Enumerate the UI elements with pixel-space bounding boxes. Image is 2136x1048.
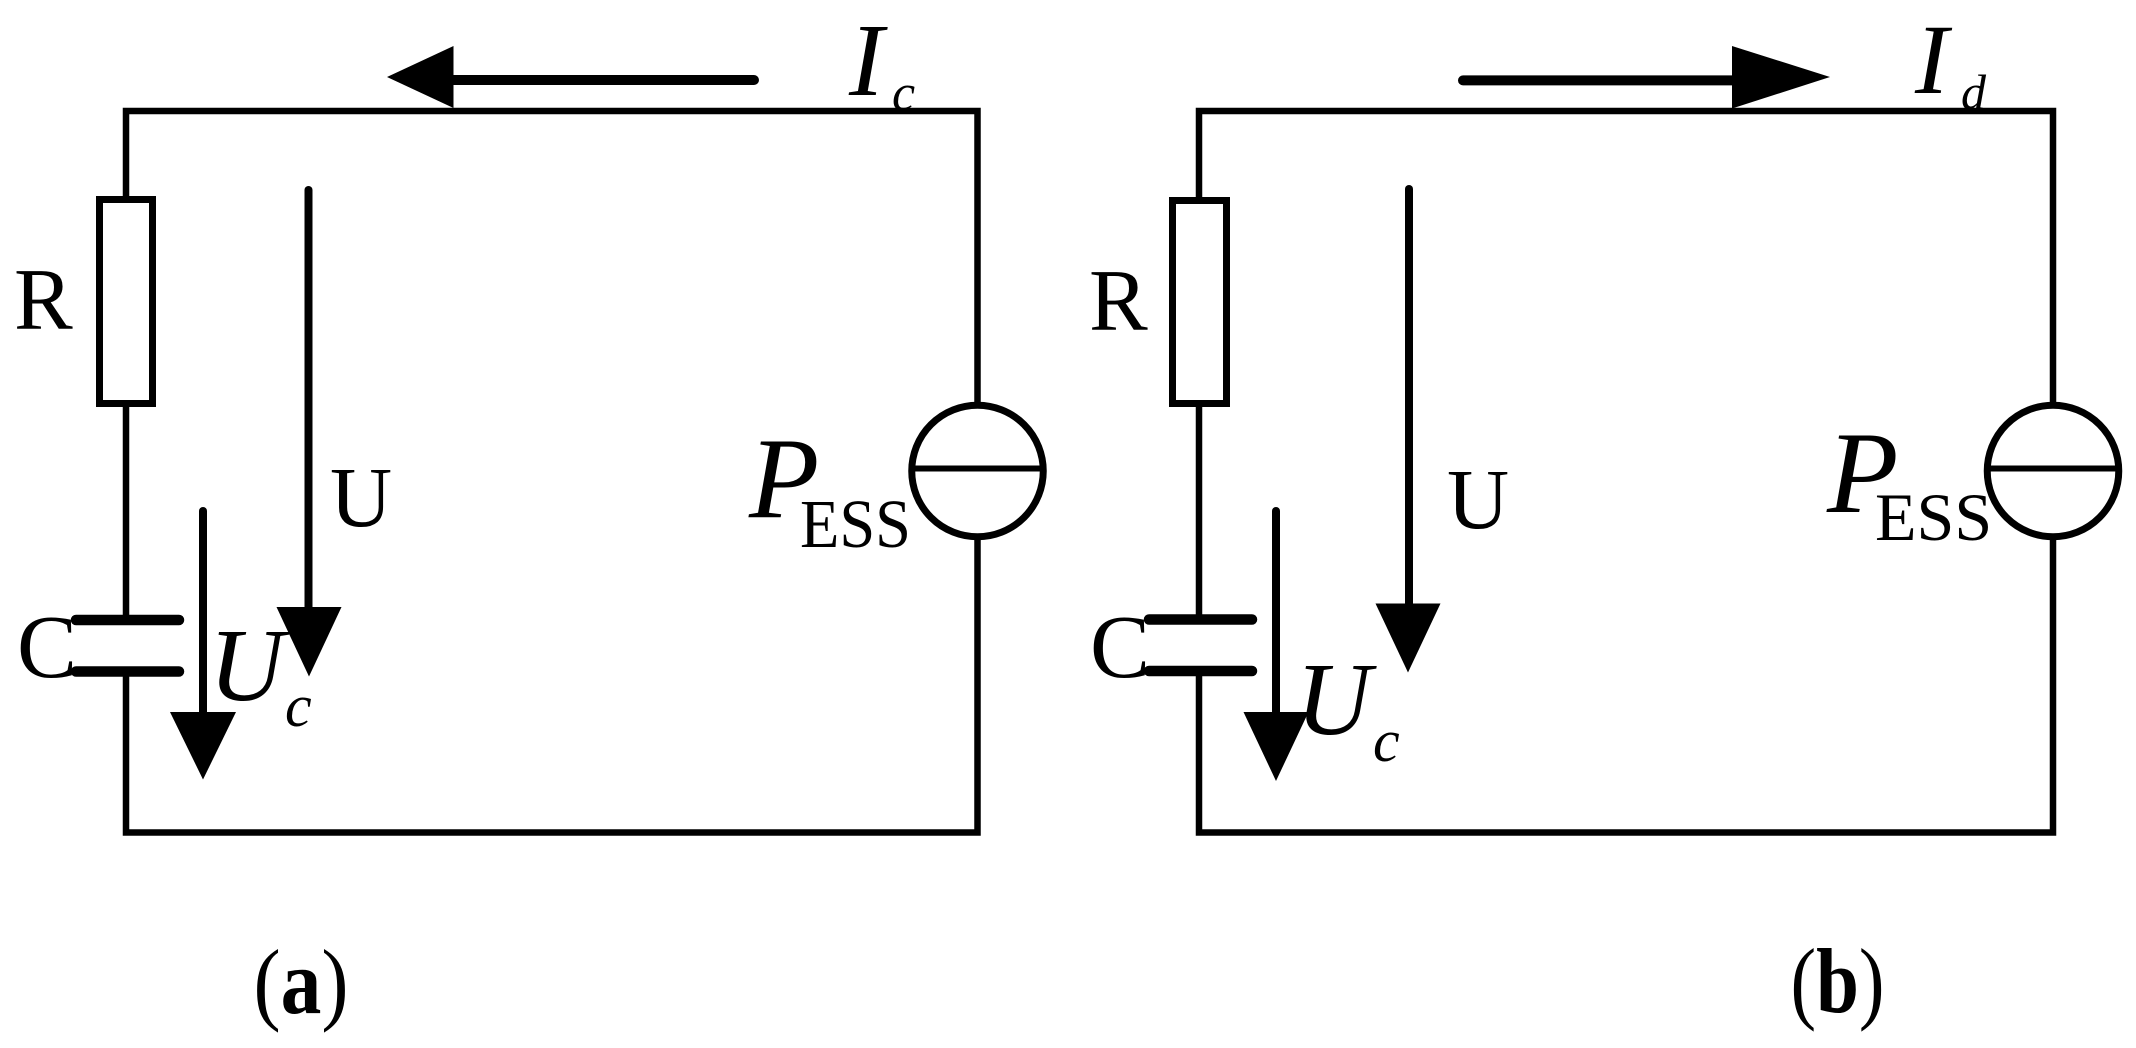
capacitor C (b) bottom plate [1149,666,1252,677]
capacitor C (b) top plate [1149,614,1252,625]
svg-text:U: U [330,449,392,545]
svg-text:ESS: ESS [800,486,911,562]
voltage arrow U (b) head [1376,604,1441,673]
svg-text:(b): (b) [1791,930,1885,1032]
power source P_ESS (a) circle [912,405,1044,537]
resistor R (a) body [100,200,153,404]
wire (b) lower loop [1199,537,2053,833]
wire (a) lower loop: capacitor bottom plate down, across bottom, up to source bottom [126,537,978,833]
power source P_ESS (a) chord [912,466,1044,472]
current arrow Id head [1732,46,1830,109]
svg-text:c: c [285,673,312,739]
svg-text:c: c [1373,708,1400,774]
wire (b) upper loop [1199,111,2053,622]
voltage arrow U (b) shaft [1405,189,1413,626]
current arrow Id shaft [1463,75,1740,85]
power source P_ESS (b) circle [1987,405,2119,537]
svg-text:R: R [1089,253,1148,350]
voltage arrow U (a) shaft [305,190,313,630]
wire (a) upper loop: capacitor top plate up, across top, down to source top [126,111,978,622]
svg-text:U: U [1296,642,1377,757]
current arrow Ic shaft [452,75,754,85]
svg-text:(a): (a) [254,931,349,1033]
capacitor C (a) top plate [76,615,179,626]
svg-text:I: I [848,3,888,118]
svg-text:C: C [1090,598,1150,697]
svg-text:d: d [1961,64,1987,120]
svg-text:c: c [892,65,915,122]
resistor R (b) body [1173,201,1227,404]
voltage arrow U (a) head [277,607,342,677]
svg-text:I: I [1914,4,1953,115]
svg-text:ESS: ESS [1875,479,1992,555]
power source P_ESS (b) chord [1987,466,2119,472]
svg-text:C: C [17,598,77,697]
voltage arrow Uc (a) head [170,712,236,780]
svg-text:U: U [209,608,290,723]
voltage arrow Uc (b) shaft [1272,511,1280,737]
svg-text:U: U [1447,451,1509,547]
voltage arrow Uc (a) shaft [199,511,207,735]
current arrow Ic head [387,46,454,108]
voltage arrow Uc (b) head [1244,712,1309,781]
capacitor C (a) bottom plate [76,666,179,677]
svg-text:R: R [14,252,73,349]
